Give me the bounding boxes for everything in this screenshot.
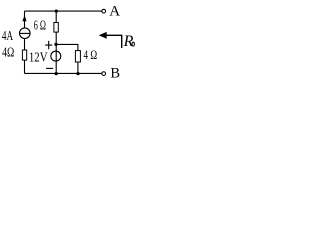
svg-text:4A: 4A bbox=[2, 28, 13, 43]
svg-text:A: A bbox=[109, 4, 120, 20]
svg-text:6 Ω: 6 Ω bbox=[34, 17, 46, 32]
svg-text:B: B bbox=[110, 66, 120, 82]
svg-text:12V: 12V bbox=[29, 50, 48, 65]
svg-text:4 Ω: 4 Ω bbox=[84, 48, 98, 62]
svg-text:R: R bbox=[123, 33, 134, 50]
svg-text:4Ω: 4Ω bbox=[2, 45, 14, 60]
